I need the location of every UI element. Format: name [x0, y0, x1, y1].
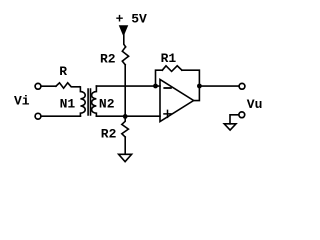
svg-text:Vi: Vi	[14, 94, 30, 109]
svg-text:N2: N2	[99, 96, 115, 111]
terminal Vi-	[35, 113, 41, 119]
transformer winding N1	[80, 87, 85, 116]
svg-text:R2: R2	[101, 126, 117, 141]
ground below R2	[119, 154, 132, 161]
wire feedback right	[182, 70, 200, 86]
wire R2 top to bottom rail	[124, 65, 126, 117]
ground at Vu-	[224, 124, 236, 130]
wire feedback left	[156, 70, 163, 86]
op-amp plus sign	[164, 110, 171, 117]
node junction output	[197, 84, 202, 89]
svg-text:+ 5V: + 5V	[116, 12, 147, 27]
wire N2 top rail to op-amp inverting input	[96, 85, 160, 87]
terminal Vi+	[35, 83, 41, 89]
wire Vi+ to R	[41, 85, 56, 87]
svg-text:Vu: Vu	[247, 97, 263, 112]
resistor R2 top	[122, 47, 128, 65]
terminal Vu+	[239, 83, 245, 89]
wire op-amp output	[194, 86, 200, 101]
node junction R2 divider	[123, 114, 128, 119]
svg-text:N1: N1	[60, 97, 76, 112]
wire R2 bottom to ground	[124, 137, 126, 154]
node junction inverting input	[153, 84, 158, 89]
transformer core	[88, 89, 90, 115]
svg-text:R2: R2	[100, 51, 116, 66]
wire output to terminal	[199, 85, 238, 87]
resistor R1	[162, 66, 182, 72]
resistor R	[56, 83, 80, 88]
wire N2 bottom rail to op-amp non-inverting input	[96, 115, 160, 117]
op-amp U1	[160, 79, 194, 121]
op-amp minus sign	[164, 87, 171, 89]
power arrow +5V	[120, 26, 128, 36]
wire +5V to R2	[124, 34, 126, 47]
svg-text:R1: R1	[161, 51, 177, 66]
transformer winding N2	[92, 86, 97, 116]
wire Vu- to ground	[230, 115, 239, 124]
resistor R2 bottom	[122, 116, 129, 137]
terminal Vu-	[239, 112, 245, 118]
svg-text:R: R	[59, 64, 67, 79]
wire Vi- to N1	[41, 115, 80, 117]
